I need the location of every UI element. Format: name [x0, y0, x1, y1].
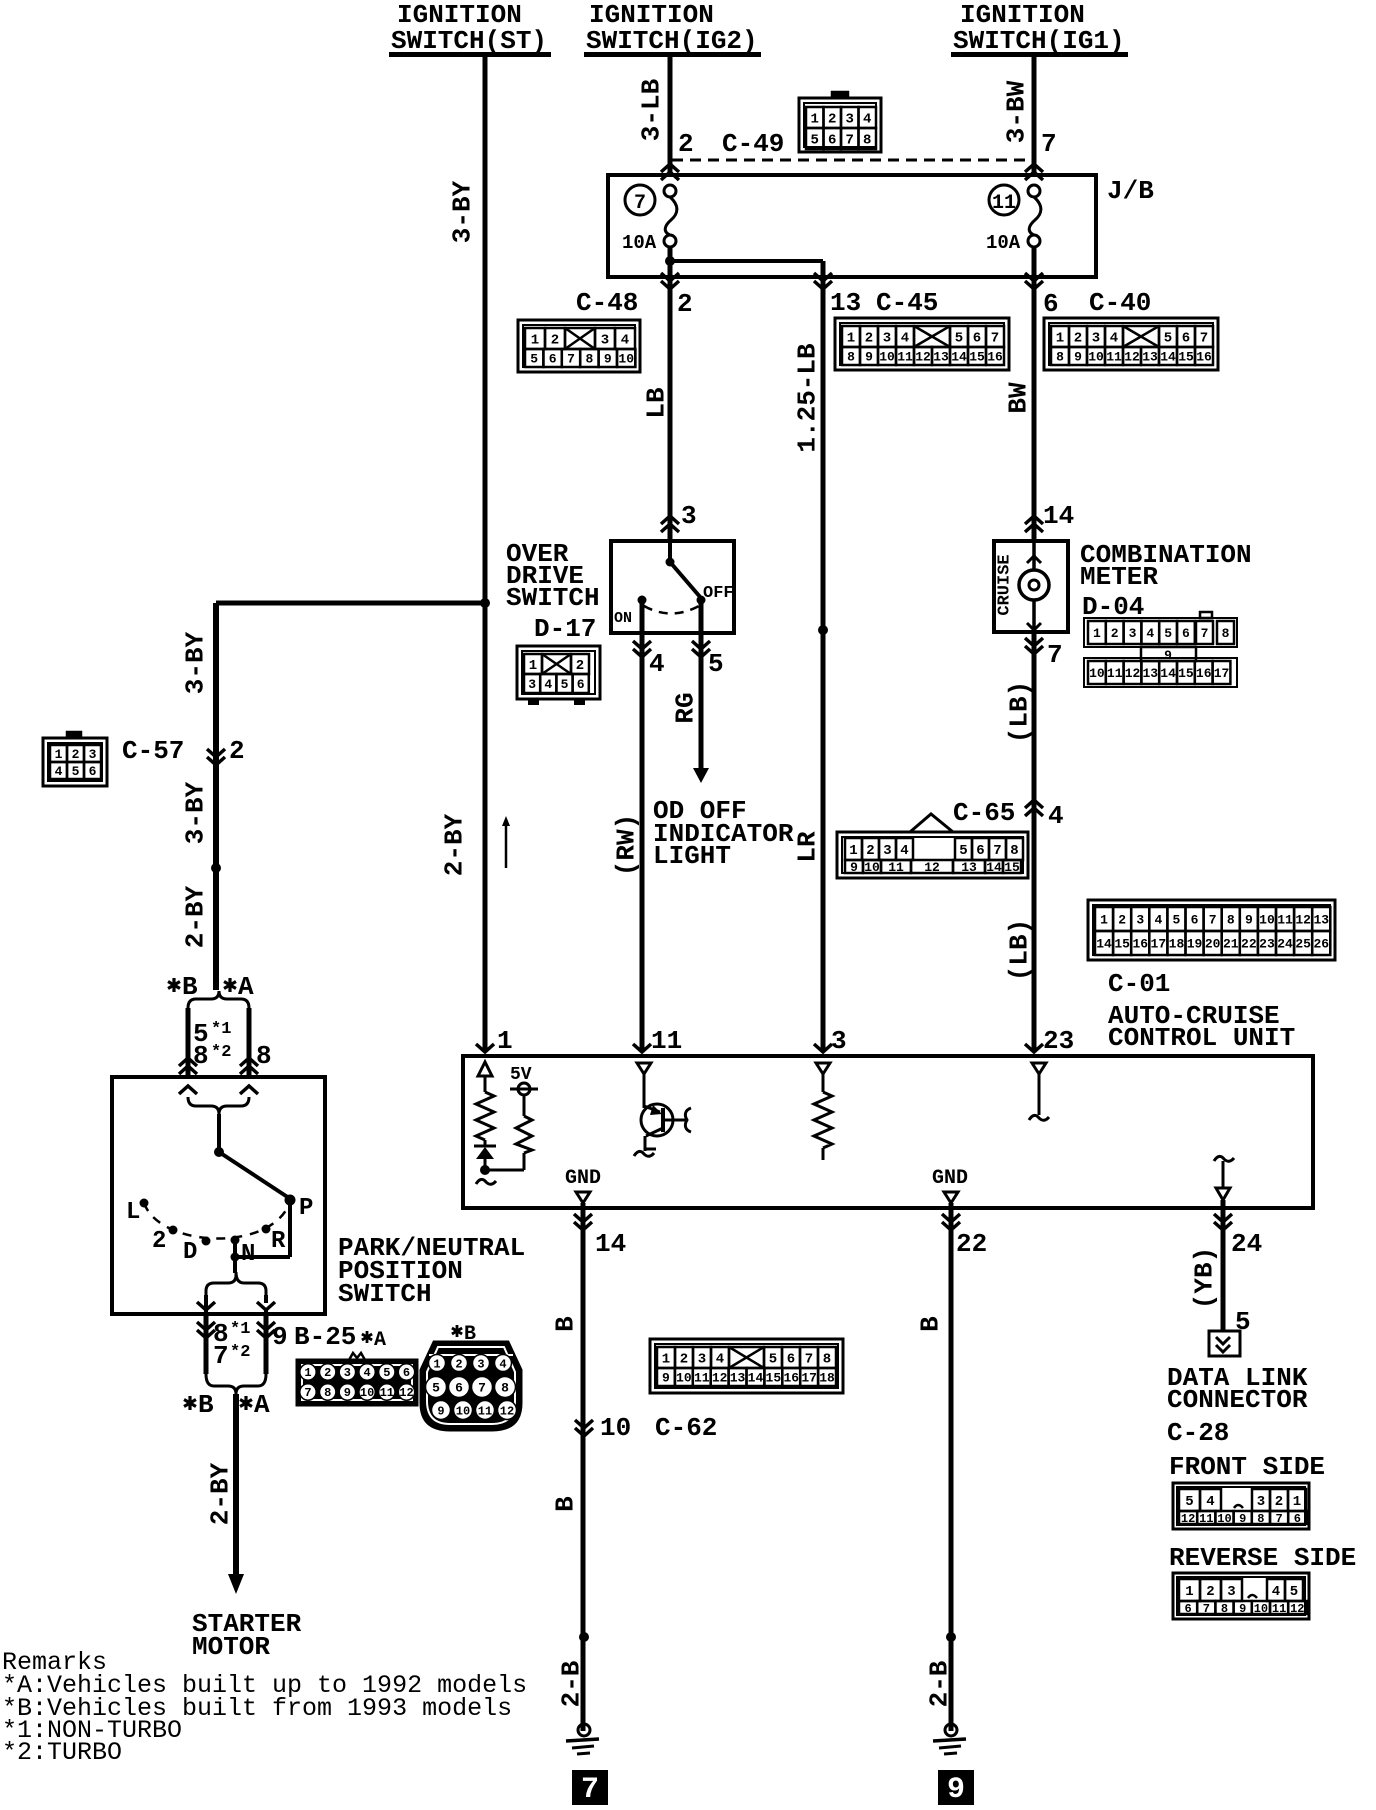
- svg-text:C-01: C-01: [1108, 969, 1170, 999]
- svg-text:10: 10: [864, 860, 880, 875]
- svg-text:3-BY: 3-BY: [180, 631, 210, 694]
- svg-text:22: 22: [956, 1229, 987, 1259]
- svg-text:8: 8: [1222, 626, 1230, 641]
- svg-text:6: 6: [1184, 1602, 1191, 1616]
- svg-text:2: 2: [865, 331, 873, 347]
- svg-text:REVERSE SIDE: REVERSE SIDE: [1169, 1543, 1356, 1573]
- svg-text:12: 12: [1181, 1512, 1195, 1526]
- svg-text:C-40: C-40: [1089, 288, 1151, 318]
- svg-text:15: 15: [969, 350, 985, 365]
- svg-text:7: 7: [581, 1773, 599, 1807]
- svg-text:2: 2: [1111, 626, 1119, 641]
- svg-text:9: 9: [272, 1322, 288, 1352]
- svg-text:3: 3: [883, 843, 891, 859]
- svg-text:2: 2: [680, 1352, 688, 1368]
- svg-text:3: 3: [1092, 331, 1100, 347]
- svg-text:9: 9: [1245, 913, 1253, 928]
- svg-text:9: 9: [344, 1386, 351, 1400]
- svg-text:4: 4: [544, 677, 552, 692]
- svg-text:6: 6: [89, 764, 97, 779]
- svg-text:3: 3: [1227, 1584, 1235, 1600]
- svg-text:15: 15: [1178, 666, 1194, 681]
- svg-text:3-BY: 3-BY: [447, 180, 477, 243]
- svg-text:GND: GND: [932, 1167, 968, 1190]
- svg-text:13: 13: [830, 288, 861, 318]
- svg-text:5: 5: [383, 1366, 390, 1380]
- svg-text:5: 5: [1164, 331, 1172, 347]
- svg-text:10: 10: [676, 1371, 692, 1386]
- svg-text:3-BY: 3-BY: [180, 781, 210, 844]
- svg-text:4: 4: [1154, 913, 1162, 928]
- svg-text:L: L: [126, 1199, 140, 1226]
- svg-text:4: 4: [499, 1357, 506, 1371]
- svg-text:8: 8: [1221, 1602, 1228, 1616]
- svg-text:3: 3: [89, 747, 97, 762]
- svg-text:20: 20: [1205, 937, 1221, 952]
- svg-text:2-B: 2-B: [924, 1660, 954, 1707]
- svg-text:SWITCH(IG1): SWITCH(IG1): [953, 26, 1125, 56]
- svg-text:23: 23: [1259, 937, 1275, 952]
- svg-text:7: 7: [1203, 1602, 1210, 1616]
- svg-text:10: 10: [1088, 350, 1104, 365]
- svg-text:7: 7: [1275, 1512, 1282, 1526]
- svg-text:GND: GND: [565, 1167, 601, 1190]
- svg-text:7: 7: [634, 192, 646, 215]
- svg-text:10: 10: [618, 352, 634, 367]
- svg-text:2: 2: [1074, 331, 1082, 347]
- svg-text:10: 10: [1254, 1602, 1268, 1616]
- svg-text:12: 12: [1125, 666, 1141, 681]
- svg-text:12: 12: [1290, 1602, 1304, 1616]
- svg-text:7: 7: [567, 352, 575, 367]
- svg-text:D-17: D-17: [534, 614, 596, 644]
- svg-text:9: 9: [437, 1404, 444, 1418]
- svg-text:OFF: OFF: [703, 584, 734, 603]
- svg-text:15: 15: [1114, 937, 1130, 952]
- svg-text:19: 19: [1187, 937, 1203, 952]
- svg-text:13: 13: [961, 860, 977, 875]
- svg-text:14: 14: [1043, 501, 1074, 531]
- svg-text:9: 9: [1239, 1602, 1246, 1616]
- svg-text:4: 4: [901, 331, 909, 347]
- svg-text:13: 13: [1142, 666, 1158, 681]
- svg-text:SWITCH(IG2): SWITCH(IG2): [586, 26, 758, 56]
- svg-text:5: 5: [72, 764, 80, 779]
- svg-text:1: 1: [847, 331, 855, 347]
- svg-text:(YB): (YB): [1189, 1247, 1219, 1309]
- svg-text:6: 6: [787, 1352, 795, 1368]
- svg-text:12: 12: [915, 350, 931, 365]
- svg-text:5: 5: [769, 1352, 777, 1368]
- svg-text:C-48: C-48: [576, 288, 638, 318]
- svg-text:10: 10: [879, 350, 895, 365]
- svg-text:1: 1: [1100, 913, 1108, 928]
- svg-text:2: 2: [828, 112, 836, 128]
- svg-text:10: 10: [456, 1404, 470, 1418]
- svg-text:14: 14: [951, 350, 967, 365]
- svg-text:(LB): (LB): [1004, 919, 1034, 981]
- svg-text:SWITCH: SWITCH: [338, 1279, 432, 1309]
- svg-text:17: 17: [1214, 666, 1230, 681]
- svg-text:C-45: C-45: [876, 288, 938, 318]
- svg-text:12: 12: [924, 860, 940, 875]
- svg-text:9: 9: [947, 1773, 965, 1807]
- svg-text:4: 4: [1110, 331, 1118, 347]
- svg-text:6: 6: [1182, 331, 1190, 347]
- svg-text:1: 1: [1093, 626, 1101, 641]
- svg-text:11: 11: [888, 860, 904, 875]
- svg-text:2: 2: [455, 1357, 462, 1371]
- svg-text:9: 9: [662, 1371, 670, 1386]
- svg-text:C-57: C-57: [122, 736, 184, 766]
- svg-text:7: 7: [846, 133, 854, 149]
- svg-text:4: 4: [1206, 1494, 1214, 1510]
- svg-text:10: 10: [600, 1413, 631, 1443]
- svg-text:4: 4: [716, 1352, 724, 1368]
- svg-text:B: B: [915, 1316, 945, 1332]
- svg-text:8: 8: [1227, 913, 1235, 928]
- svg-text:21: 21: [1223, 937, 1239, 952]
- svg-text:CONNECTOR: CONNECTOR: [1167, 1385, 1308, 1415]
- svg-text:17: 17: [1151, 937, 1167, 952]
- svg-text:5: 5: [1164, 626, 1172, 641]
- svg-text:4: 4: [863, 112, 871, 128]
- svg-text:2: 2: [551, 333, 559, 349]
- svg-text:2: 2: [1275, 1494, 1283, 1510]
- svg-text:1: 1: [1056, 331, 1064, 347]
- svg-text:2: 2: [677, 289, 693, 319]
- svg-text:9: 9: [850, 860, 858, 875]
- svg-text:CRUISE: CRUISE: [995, 554, 1014, 615]
- svg-text:8: 8: [501, 1380, 509, 1395]
- svg-text:6: 6: [1294, 1512, 1301, 1526]
- svg-text:*2: *2: [211, 1043, 231, 1062]
- svg-text:7: 7: [478, 1380, 486, 1395]
- svg-text:11: 11: [1106, 350, 1122, 365]
- svg-text:8: 8: [823, 1352, 831, 1368]
- svg-text:B: B: [550, 1496, 580, 1512]
- svg-text:6: 6: [1043, 289, 1059, 319]
- svg-text:6: 6: [1191, 913, 1199, 928]
- svg-text:7: 7: [1047, 640, 1063, 670]
- svg-text:11: 11: [1277, 913, 1293, 928]
- svg-text:7: 7: [213, 1341, 229, 1371]
- svg-text:CONTROL UNIT: CONTROL UNIT: [1108, 1023, 1295, 1053]
- svg-text:5: 5: [959, 843, 967, 859]
- svg-text:11: 11: [694, 1371, 710, 1386]
- svg-text:10: 10: [1217, 1512, 1231, 1526]
- svg-text:4: 4: [1048, 801, 1064, 831]
- svg-text:1: 1: [433, 1357, 440, 1371]
- svg-text:D: D: [183, 1239, 197, 1266]
- svg-text:8: 8: [256, 1041, 272, 1071]
- svg-text:2: 2: [1118, 913, 1126, 928]
- svg-text:9: 9: [865, 350, 873, 365]
- svg-text:7: 7: [805, 1352, 813, 1368]
- svg-text:6: 6: [973, 331, 981, 347]
- svg-text:2-B: 2-B: [556, 1660, 586, 1707]
- svg-text:A: A: [374, 1329, 386, 1352]
- svg-text:4: 4: [621, 333, 629, 349]
- svg-text:5: 5: [1173, 913, 1181, 928]
- svg-text:8: 8: [1257, 1512, 1264, 1526]
- svg-text:1: 1: [811, 112, 819, 128]
- svg-text:13: 13: [933, 350, 949, 365]
- svg-text:1: 1: [849, 843, 857, 859]
- svg-text:7: 7: [993, 843, 1001, 859]
- svg-text:10: 10: [1089, 666, 1105, 681]
- svg-text:*1: *1: [230, 1320, 250, 1339]
- svg-text:B: B: [550, 1316, 580, 1332]
- svg-text:RG: RG: [670, 692, 700, 723]
- svg-text:11: 11: [478, 1404, 492, 1418]
- svg-text:3-BW: 3-BW: [1001, 80, 1031, 143]
- svg-text:11: 11: [1199, 1512, 1213, 1526]
- svg-text:BW: BW: [1003, 382, 1033, 414]
- svg-text:15: 15: [766, 1371, 782, 1386]
- svg-text:3: 3: [883, 331, 891, 347]
- svg-text:12: 12: [399, 1386, 413, 1400]
- svg-text:16: 16: [783, 1371, 799, 1386]
- svg-text:7: 7: [991, 331, 999, 347]
- svg-text:*1: *1: [211, 1020, 231, 1039]
- svg-text:METER: METER: [1080, 562, 1158, 592]
- svg-text:8: 8: [863, 133, 871, 149]
- svg-text:8: 8: [324, 1386, 331, 1400]
- svg-text:16: 16: [1196, 666, 1212, 681]
- svg-text:7: 7: [1201, 626, 1209, 641]
- svg-text:10: 10: [360, 1386, 374, 1400]
- svg-text:5: 5: [811, 133, 819, 149]
- svg-text:1: 1: [55, 747, 63, 762]
- svg-text:3: 3: [344, 1366, 351, 1380]
- svg-text:5V: 5V: [510, 1065, 532, 1085]
- svg-text:3: 3: [477, 1357, 484, 1371]
- svg-text:14: 14: [748, 1371, 764, 1386]
- svg-text:(LB): (LB): [1004, 681, 1034, 743]
- svg-text:8: 8: [847, 350, 855, 365]
- svg-text:15: 15: [1178, 350, 1194, 365]
- svg-text:1: 1: [1293, 1494, 1301, 1510]
- svg-text:7: 7: [1041, 129, 1057, 159]
- svg-text:LR: LR: [792, 831, 822, 863]
- svg-text:2: 2: [72, 747, 80, 762]
- svg-text:2-BY: 2-BY: [439, 813, 469, 876]
- svg-text:4: 4: [649, 649, 665, 679]
- svg-text:MOTOR: MOTOR: [192, 1632, 270, 1662]
- svg-text:11: 11: [897, 350, 913, 365]
- svg-text:4: 4: [363, 1366, 370, 1380]
- svg-text:3-LB: 3-LB: [636, 78, 666, 141]
- svg-text:16: 16: [987, 350, 1003, 365]
- svg-text:9: 9: [1074, 350, 1082, 365]
- svg-text:12: 12: [1124, 350, 1140, 365]
- svg-text:6: 6: [828, 133, 836, 149]
- svg-text:14: 14: [1160, 350, 1176, 365]
- svg-text:14: 14: [1160, 666, 1176, 681]
- svg-text:1: 1: [304, 1366, 311, 1380]
- svg-text:11: 11: [992, 192, 1016, 215]
- svg-text:5: 5: [1185, 1494, 1193, 1510]
- svg-text:12: 12: [712, 1371, 728, 1386]
- svg-text:13: 13: [730, 1371, 746, 1386]
- svg-text:2-BY: 2-BY: [205, 1462, 235, 1525]
- svg-text:A: A: [254, 1390, 270, 1420]
- svg-text:10A: 10A: [986, 232, 1021, 254]
- svg-text:1: 1: [531, 333, 539, 349]
- svg-text:3: 3: [846, 112, 854, 128]
- svg-text:24: 24: [1277, 937, 1293, 952]
- svg-text:*2:TURBO: *2:TURBO: [2, 1738, 122, 1767]
- svg-text:18: 18: [1169, 937, 1185, 952]
- svg-text:1: 1: [529, 658, 537, 674]
- svg-text:LB: LB: [641, 387, 671, 419]
- svg-text:12: 12: [500, 1404, 514, 1418]
- svg-text:(RW): (RW): [611, 814, 641, 876]
- svg-text:FRONT SIDE: FRONT SIDE: [1169, 1452, 1325, 1482]
- svg-text:3: 3: [698, 1352, 706, 1368]
- svg-text:7: 7: [304, 1386, 311, 1400]
- svg-text:J/B: J/B: [1107, 176, 1154, 206]
- svg-text:B-25: B-25: [294, 1322, 356, 1352]
- svg-text:5: 5: [530, 352, 538, 367]
- svg-text:6: 6: [403, 1366, 410, 1380]
- svg-text:7: 7: [1200, 331, 1208, 347]
- svg-text:1: 1: [1185, 1584, 1193, 1600]
- svg-text:8: 8: [1056, 350, 1064, 365]
- svg-text:3: 3: [1129, 626, 1137, 641]
- svg-text:22: 22: [1241, 937, 1257, 952]
- svg-text:14: 14: [595, 1229, 626, 1259]
- svg-text:R: R: [271, 1228, 286, 1255]
- svg-text:1.25-LB: 1.25-LB: [792, 343, 822, 453]
- svg-text:15: 15: [1004, 860, 1020, 875]
- svg-text:11: 11: [1107, 666, 1123, 681]
- svg-text:3: 3: [681, 501, 697, 531]
- svg-text:25: 25: [1295, 937, 1311, 952]
- svg-text:2: 2: [866, 843, 874, 859]
- svg-text:3: 3: [1257, 1494, 1265, 1510]
- svg-text:SWITCH(ST): SWITCH(ST): [391, 26, 547, 56]
- svg-text:10: 10: [1259, 913, 1275, 928]
- svg-text:P: P: [299, 1195, 313, 1222]
- svg-text:B: B: [198, 1390, 214, 1420]
- svg-text:6: 6: [549, 352, 557, 367]
- svg-text:5: 5: [561, 677, 569, 692]
- svg-text:N: N: [241, 1241, 255, 1268]
- svg-text:4: 4: [1146, 626, 1154, 641]
- svg-text:2: 2: [678, 129, 694, 159]
- svg-text:16: 16: [1132, 937, 1148, 952]
- svg-text:C-62: C-62: [655, 1413, 717, 1443]
- svg-text:4: 4: [55, 764, 63, 779]
- svg-text:2: 2: [576, 658, 584, 674]
- svg-text:9: 9: [604, 352, 612, 367]
- svg-text:4: 4: [1272, 1584, 1280, 1600]
- svg-text:C-28: C-28: [1167, 1418, 1229, 1448]
- svg-text:8: 8: [585, 352, 593, 367]
- svg-text:B: B: [182, 972, 198, 1002]
- svg-text:3: 3: [1136, 913, 1144, 928]
- svg-text:LIGHT: LIGHT: [653, 841, 731, 871]
- svg-text:4: 4: [900, 843, 908, 859]
- svg-text:*2: *2: [230, 1343, 250, 1362]
- svg-text:8: 8: [1010, 843, 1018, 859]
- svg-text:10A: 10A: [622, 232, 657, 254]
- svg-text:2: 2: [152, 1228, 166, 1255]
- svg-text:6: 6: [455, 1380, 463, 1395]
- svg-text:5: 5: [708, 649, 724, 679]
- svg-text:5: 5: [432, 1380, 440, 1395]
- svg-text:3: 3: [528, 677, 536, 692]
- svg-text:14: 14: [986, 860, 1002, 875]
- svg-text:6: 6: [976, 843, 984, 859]
- svg-text:13: 13: [1142, 350, 1158, 365]
- svg-text:C-49: C-49: [722, 129, 784, 159]
- svg-text:24: 24: [1231, 1229, 1262, 1259]
- svg-text:17: 17: [801, 1371, 817, 1386]
- svg-text:6: 6: [577, 677, 585, 692]
- svg-text:11: 11: [380, 1386, 394, 1400]
- svg-text:1: 1: [662, 1352, 670, 1368]
- svg-text:3: 3: [831, 1026, 847, 1056]
- svg-text:6: 6: [1182, 626, 1190, 641]
- svg-text:5: 5: [955, 331, 963, 347]
- svg-text:2: 2: [1206, 1584, 1214, 1600]
- svg-text:7: 7: [1209, 913, 1217, 928]
- svg-text:SWITCH: SWITCH: [506, 583, 600, 613]
- svg-text:14: 14: [1096, 937, 1112, 952]
- svg-text:5: 5: [1290, 1584, 1298, 1600]
- svg-text:2-BY: 2-BY: [180, 885, 210, 948]
- svg-text:13: 13: [1313, 913, 1329, 928]
- svg-text:1: 1: [497, 1026, 513, 1056]
- svg-text:12: 12: [1295, 913, 1311, 928]
- svg-text:C-65: C-65: [953, 798, 1015, 828]
- svg-text:3: 3: [601, 333, 609, 349]
- svg-text:16: 16: [1196, 350, 1212, 365]
- svg-text:9: 9: [1239, 1512, 1246, 1526]
- svg-text:2: 2: [229, 736, 245, 766]
- svg-text:18: 18: [819, 1371, 835, 1386]
- svg-text:11: 11: [1272, 1602, 1286, 1616]
- svg-text:26: 26: [1313, 937, 1329, 952]
- svg-text:ON: ON: [614, 610, 632, 627]
- svg-text:11: 11: [651, 1026, 682, 1056]
- svg-text:23: 23: [1043, 1026, 1074, 1056]
- svg-text:2: 2: [324, 1366, 331, 1380]
